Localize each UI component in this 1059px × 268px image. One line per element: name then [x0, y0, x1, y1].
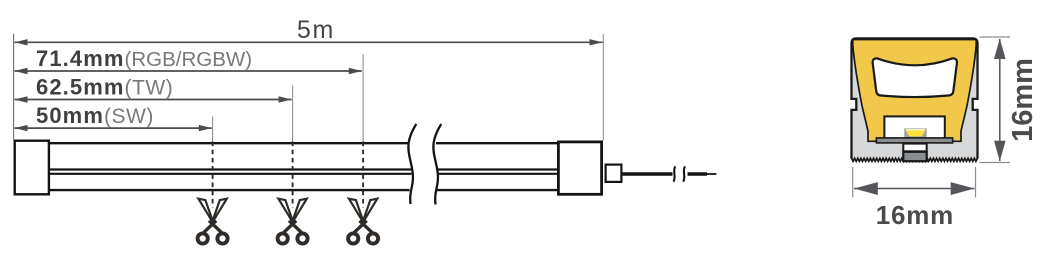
extension line for 71.4mm cut point	[362, 54, 364, 142]
scissors 2 at 62.5mm cut	[278, 199, 308, 244]
wire break squiggle right	[683, 166, 685, 181]
dimension 62.5mm line	[15, 99, 292, 101]
svg-text:71.4mm(RGB/RGBW): 71.4mm(RGB/RGBW)	[36, 46, 252, 71]
cross-section inner LED cavity	[884, 116, 944, 139]
LED phosphor (yellow emitter)	[906, 131, 925, 137]
under-PCB white channel	[903, 144, 926, 152]
wire segment 1	[623, 172, 673, 176]
cut dashed line 1 (50mm)	[212, 142, 214, 208]
svg-text:5m: 5m	[297, 16, 335, 44]
mounting keel block	[903, 152, 926, 161]
dimension 50mm line	[15, 127, 212, 129]
cross-section body outline (sides, grooves and top)	[852, 38, 978, 158]
strip tube inner PCB line lower (left segment)	[50, 173, 412, 175]
dimension 71.4mm line	[15, 70, 362, 72]
PCB bar	[876, 138, 952, 143]
dimension 5m arrowheads	[15, 39, 28, 45]
cross-section top light window (diffuser opening)	[873, 58, 957, 97]
extension line bottom left (cross-section width)	[852, 167, 854, 198]
extension line bottom right (cross-section bottom)	[980, 162, 1011, 164]
extension line for 62.5mm cut point	[292, 86, 294, 142]
dimension 62.5mm arrowheads	[15, 96, 28, 102]
svg-text:62.5mm(TW): 62.5mm(TW)	[36, 74, 173, 99]
LED package	[904, 128, 926, 138]
strip tube bottom edge (right segment)	[437, 189, 558, 191]
extension line for 50mm cut point	[212, 117, 214, 142]
cross-section serrated base edge	[852, 158, 978, 161]
horizontal dimension line 16mm	[854, 188, 975, 190]
strip tube top edge (left segment)	[50, 142, 409, 144]
wire segment 2	[688, 172, 708, 176]
tube break curve left	[408, 124, 416, 204]
strip tube bottom edge (left segment)	[50, 189, 410, 191]
dimension 5m line	[15, 41, 603, 43]
extension line bottom right (cross-section width)	[975, 167, 977, 198]
extension line top right (cross-section top)	[980, 36, 1011, 38]
cut dashed line 2 (62.5mm)	[292, 142, 294, 208]
vertical dimension arrowheads	[994, 39, 1006, 60]
svg-text:16mm: 16mm	[876, 200, 954, 230]
tube break curve right	[433, 124, 441, 205]
vertical dimension line 16mm	[999, 39, 1001, 161]
wire tip	[707, 173, 716, 175]
strip tube top edge (right segment)	[436, 142, 557, 144]
svg-text:16mm: 16mm	[1007, 58, 1039, 142]
scissors 1 at 50mm cut	[198, 199, 228, 244]
strip tube inner PCB line upper (right segment)	[438, 168, 557, 170]
dimension 50mm arrowheads	[15, 125, 28, 131]
dimension 71.4mm arrowheads	[15, 68, 28, 74]
cross-section yellow silicone jacket	[853, 40, 976, 142]
strip tube inner PCB line lower (right segment)	[438, 173, 557, 175]
cut dashed line 3 (71.4mm)	[362, 142, 364, 208]
svg-text:50mm(SW): 50mm(SW)	[36, 103, 154, 128]
scissors 3 at 71.4mm cut	[348, 199, 378, 244]
connector nub	[606, 165, 622, 182]
extension line right for 5m (at end-cap right edge)	[602, 34, 604, 141]
cross-section body fill (silicone housing)	[852, 38, 978, 161]
strip right end connector block	[558, 142, 601, 194]
extension line left (common datum at strip left end)	[13, 34, 15, 140]
strip tube inner PCB line upper (left segment)	[50, 168, 412, 170]
strip left end cap	[15, 141, 49, 195]
wire break squiggle left	[674, 166, 676, 181]
LED phosphor top strip	[906, 129, 925, 131]
horizontal dimension arrowheads	[854, 182, 878, 195]
